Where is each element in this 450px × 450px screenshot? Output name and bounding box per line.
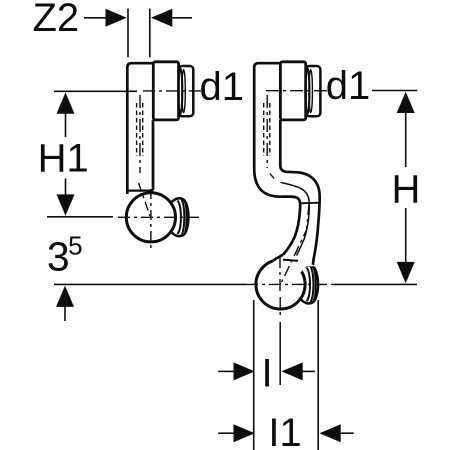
left fitting union nut (153, 62, 193, 120)
arrowheads (56, 9, 415, 442)
right fitting pipe centerline (266, 95, 268, 168)
H dimension line lower (405, 208, 407, 262)
I right arrow (281, 362, 302, 380)
svg-text:3: 3 (47, 234, 70, 280)
I dimension tail left (218, 370, 234, 372)
thread bore arcs (305, 68, 309, 114)
H top arrow (397, 92, 415, 113)
Z2 right arrow (151, 9, 172, 27)
floor reference line (54, 283, 246, 285)
Z2 dimension tail left (84, 17, 107, 19)
H1 dimension line upper (65, 112, 67, 137)
svg-text:I1: I1 (268, 411, 301, 450)
svg-text:Z2: Z2 (32, 0, 79, 40)
I1 left arrow (234, 424, 255, 442)
left fitting seal wing (side outlet ridges) (170, 198, 189, 236)
H1 bottom arrow (57, 194, 75, 215)
svg-text:H1: H1 (38, 137, 89, 181)
Z2 extension line right (149, 9, 151, 58)
svg-text:H: H (392, 168, 421, 212)
left fitting hidden thread lines (137, 103, 143, 156)
H bottom arrow (397, 262, 415, 283)
floor reference line dash through ball (246, 283, 334, 285)
H dimension line upper (405, 112, 407, 167)
pipe left edge + housing top (127, 63, 153, 194)
H1 top extension line (54, 90, 137, 92)
Z2 extension line left (127, 9, 129, 58)
right fitting bend centerline dash (270, 174, 274, 179)
right ball socket collar (271, 255, 285, 264)
right fitting ball joint (256, 260, 305, 309)
H1 top arrow (57, 92, 75, 113)
right fitting S-pipe body (white fill) (254, 64, 320, 273)
svg-text:5: 5 (68, 230, 82, 260)
I1 right arrow (319, 424, 340, 442)
I dimension tail right (301, 370, 315, 372)
right nut horizontal centerline (266, 90, 328, 92)
svg-text:d1: d1 (326, 64, 371, 108)
ball axis extension line (solid) (279, 322, 281, 385)
right fitting diagonal centerline (281, 204, 310, 285)
H1 bottom extension line (47, 216, 113, 218)
right pipe outer left edge + housing top (254, 63, 300, 254)
left ball horizontal centerline (118, 216, 199, 218)
right fitting union nut (280, 62, 320, 120)
left fitting ball vertical centerline (150, 189, 152, 251)
right pipe inner right edge (280, 120, 319, 265)
nut threaded end piece (306, 66, 321, 116)
Z2 left arrow (106, 9, 127, 27)
left fitting ball joint (126, 193, 175, 242)
right pipe inner highlight line (280, 182, 309, 255)
pipe right edge (152, 120, 155, 190)
svg-text:I: I (261, 352, 272, 396)
Z2 dimension tail right (172, 17, 192, 19)
left fitting inlet pipe (white body over ball) (126, 63, 154, 194)
ball axis extension line (dashes below ball) (279, 297, 281, 318)
35 up arrow (56, 286, 74, 307)
right fitting hidden thread lines (264, 103, 270, 156)
left nut horizontal centerline (143, 90, 201, 92)
right fitting seal wing (side outlet ridges) (300, 265, 319, 303)
left fitting pipe centerline (139, 95, 141, 173)
right fitting ball vertical centerline (279, 256, 281, 292)
pipe to ball joint chord (128, 190, 154, 192)
I left arrow (234, 362, 255, 380)
svg-text:d1: d1 (200, 65, 245, 109)
H1 dimension line lower (65, 179, 67, 197)
d1 right label line (372, 90, 417, 92)
I1 extension line right (317, 300, 319, 450)
left fitting diagonal centerline (139, 183, 150, 216)
I extension line left (253, 300, 255, 450)
floor reference line right part (334, 283, 417, 285)
right pipe transverse section line (300, 202, 320, 205)
nut threaded end piece (179, 66, 194, 116)
thread bore arcs (178, 68, 182, 114)
I1 dimension tail right (340, 432, 354, 434)
35 dim arrow tail (64, 305, 66, 321)
I1 dimension tail left (218, 432, 234, 434)
right pipe ball joint seam (283, 260, 298, 261)
